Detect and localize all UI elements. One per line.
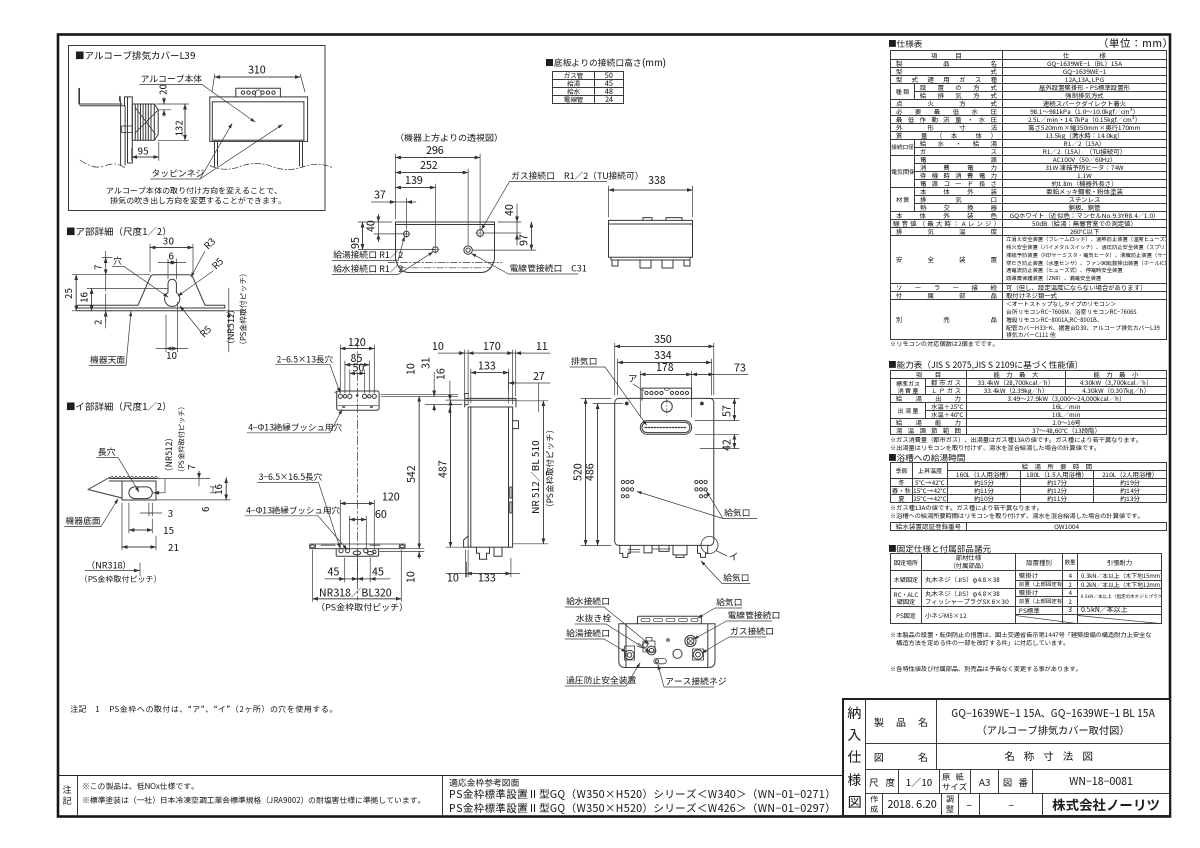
svg-text:97: 97 — [517, 234, 532, 246]
bottom view outline — [619, 624, 715, 668]
能力表 title — [888, 359, 1083, 371]
box border — [69, 46, 326, 211]
svg-text:73: 73 — [734, 361, 746, 376]
cold water hole — [433, 247, 439, 253]
bath table — [890, 462, 1167, 503]
svg-text:486: 486 — [583, 463, 598, 481]
bottom strip — [57, 775, 842, 817]
svg-text:給気口: 給気口 — [724, 506, 750, 519]
dim 10 bottom (bracket) — [380, 551, 424, 558]
svg-text:37: 37 — [374, 188, 386, 203]
side view: plate clip block — [122, 126, 133, 133]
svg-text:7: 7 — [91, 264, 105, 270]
svg-text:（NR512）: （NR512） — [163, 433, 175, 476]
side body — [609, 220, 693, 257]
svg-text:133: 133 — [478, 359, 496, 374]
dim 73 — [692, 373, 748, 375]
dim 97 right — [473, 222, 537, 250]
svg-text:16: 16 — [434, 368, 449, 380]
svg-text:133: 133 — [478, 571, 496, 586]
dim 21 — [122, 503, 156, 550]
top view dashdot lines — [388, 261, 502, 263]
center section holes — [339, 549, 343, 553]
svg-text:120: 120 — [382, 490, 400, 505]
dim 95 — [132, 142, 159, 161]
front top center knockout — [661, 401, 672, 412]
svg-text:25: 25 — [61, 288, 75, 299]
dim 139 — [396, 184, 436, 245]
svg-text:水抜き栓: 水抜き栓 — [575, 612, 612, 625]
svg-text:NR 512／BL 510: NR 512／BL 510 — [527, 440, 542, 514]
dim 120 bottom — [340, 500, 374, 549]
bottom bracket center section — [336, 549, 378, 557]
svg-text:穴: 穴 — [113, 254, 122, 267]
NR318 pitch dim — [85, 563, 140, 576]
product name row — [866, 700, 1169, 743]
dim 520 — [581, 398, 611, 545]
height table — [552, 71, 624, 104]
dim 3 — [140, 503, 162, 516]
water inlet + drain — [643, 638, 655, 653]
dim 16 — [87, 288, 168, 310]
dim 2 — [102, 294, 112, 328]
dim 133 top — [471, 369, 509, 403]
dim 60 bottom — [349, 516, 366, 549]
svg-text:4−Φ13絶縁ブッシュ用穴: 4−Φ13絶縁ブッシュ用穴 — [246, 505, 340, 517]
svg-text:310: 310 — [248, 63, 266, 78]
dim 16 — [156, 478, 230, 500]
side view: wall break line — [80, 160, 125, 168]
detail I slot — [129, 487, 152, 499]
scale row — [866, 769, 1169, 793]
svg-text:アルコーブ本体: アルコーブ本体 — [141, 72, 203, 85]
svg-text:（PS金枠取付ピッチ）: （PS金枠取付ピッチ） — [316, 601, 408, 614]
dim 120 top — [340, 345, 374, 393]
svg-text:給水接続口 R1／2: 給水接続口 R1／2 — [333, 262, 403, 275]
svg-text:15: 15 — [163, 523, 174, 537]
svg-text:7: 7 — [184, 464, 198, 470]
svg-text:（機器上方よりの透視図）: （機器上方よりの透視図） — [395, 131, 503, 144]
dim 486 — [593, 404, 623, 546]
svg-text:給湯接続口 R1／2: 給湯接続口 R1／2 — [333, 248, 403, 261]
dim 6 — [210, 487, 216, 493]
svg-text:338: 338 — [648, 173, 666, 188]
front view: bottom break line — [210, 164, 332, 170]
svg-text:長穴: 長穴 — [98, 445, 116, 458]
svg-text:R3: R3 — [200, 234, 218, 252]
dim 85 top — [345, 361, 369, 393]
svg-text:R5: R5 — [196, 322, 214, 340]
bath notes — [890, 504, 1144, 520]
dim 10 — [156, 302, 188, 352]
front view: cover face — [212, 102, 304, 140]
bottom tabs — [612, 260, 690, 268]
svg-text:機器底面: 機器底面 — [65, 514, 100, 527]
dim 6 — [158, 259, 186, 279]
dim row top: 10 170 11 — [438, 350, 550, 404]
conduit port — [685, 635, 696, 646]
dim 7 — [102, 251, 150, 291]
side view: cover nose bevel — [154, 104, 158, 140]
dim 30 — [150, 244, 193, 272]
earth tab — [654, 659, 667, 664]
svg-text:95: 95 — [138, 143, 149, 158]
浴槽への給湯時間 title — [888, 452, 965, 464]
svg-text:3−6.5×16.5長穴: 3−6.5×16.5長穴 — [259, 471, 323, 483]
dim 40 left — [374, 214, 406, 242]
top bracket plate — [337, 391, 379, 410]
svg-text:（PS金枠取付ピッチ）: （PS金枠取付ピッチ） — [80, 574, 162, 585]
hot water hole — [404, 231, 410, 237]
drawing name row — [866, 743, 1169, 769]
Noritz logo text — [1043, 794, 1169, 816]
svg-text:給湯接続口: 給湯接続口 — [566, 627, 610, 640]
small screw — [667, 639, 670, 642]
dim 310 — [212, 74, 305, 92]
svg-text:42: 42 — [720, 439, 735, 451]
dim 178 — [640, 371, 691, 417]
unit note — [1098, 36, 1174, 51]
svg-text:（NR512）: （NR512） — [224, 305, 237, 349]
svg-text:16: 16 — [76, 292, 90, 303]
svg-text:給気口: 給気口 — [716, 596, 742, 609]
side view: wall top edge — [80, 104, 125, 106]
svg-text:20: 20 — [156, 84, 170, 95]
dim 25 — [72, 275, 102, 311]
top plate slots — [641, 618, 650, 621]
front view: legs — [215, 141, 303, 167]
front view: top tab with holes — [236, 88, 281, 97]
dim 20 — [156, 104, 171, 110]
side view: wall corner ticks — [79, 89, 120, 105]
conduit hole — [464, 246, 472, 254]
exhaust slot — [640, 421, 691, 435]
center circle — [673, 649, 682, 658]
svg-text:給水接続口: 給水接続口 — [566, 595, 610, 608]
svg-text:■イ部詳細（尺度1／2）: ■イ部詳細（尺度1／2） — [66, 399, 172, 413]
svg-text:10: 10 — [404, 363, 419, 375]
svg-text:■アルコーブ排気カバーL39: ■アルコーブ排気カバーL39 — [75, 48, 195, 62]
remocon note — [890, 340, 999, 348]
front tab notch — [664, 388, 669, 391]
capacity notes — [890, 436, 1142, 452]
dim 57 — [695, 398, 739, 420]
side bottom pipes — [477, 547, 503, 559]
svg-text:10: 10 — [447, 571, 459, 586]
dim 338 — [609, 186, 693, 217]
front screws — [625, 402, 628, 405]
left vent cluster — [621, 480, 624, 483]
svg-text:2: 2 — [91, 319, 105, 325]
bottom bracket strip — [310, 544, 405, 549]
front top tab — [642, 388, 692, 400]
svg-text:50: 50 — [353, 360, 365, 375]
svg-text:（PS金枠取付ピッチ）: （PS金枠取付ピッチ） — [238, 269, 249, 349]
svg-text:排気口: 排気口 — [571, 355, 597, 368]
gas hole — [477, 230, 484, 237]
svg-text:機器天面: 機器天面 — [90, 353, 125, 366]
right vent cluster — [695, 480, 698, 483]
strip end holes — [310, 545, 314, 548]
gas port — [693, 649, 704, 660]
fixing notes — [890, 631, 1151, 647]
detail A bracket profile — [77, 275, 224, 311]
side bottom left bracket — [464, 536, 469, 547]
date row — [866, 793, 1169, 815]
svg-text:ア: ア — [628, 371, 638, 385]
svg-text:170: 170 — [483, 339, 501, 354]
svg-text:139: 139 — [405, 173, 423, 188]
detail I wedge — [88, 478, 122, 499]
side view: mount plate — [125, 97, 133, 163]
svg-text:NR318／BL320: NR318／BL320 — [319, 585, 392, 600]
svg-text:40: 40 — [502, 204, 517, 216]
svg-text:45: 45 — [328, 565, 340, 580]
svg-text:350: 350 — [654, 332, 672, 347]
note 1 — [70, 704, 338, 715]
svg-text:10: 10 — [404, 571, 419, 583]
dim 37 — [371, 198, 416, 229]
top bumps — [643, 218, 682, 221]
svg-text:252: 252 — [420, 158, 438, 173]
center axis dash-dot — [357, 340, 359, 600]
top view body — [396, 222, 495, 273]
detail I serrated edge — [110, 476, 158, 479]
svg-text:3: 3 — [168, 506, 173, 520]
svg-text:11: 11 — [536, 339, 548, 354]
svg-text:45: 45 — [372, 565, 384, 580]
svg-text:542: 542 — [404, 465, 419, 483]
svg-text:30: 30 — [163, 234, 174, 248]
detail A keyhole slot — [165, 279, 180, 306]
side view: cover hood ribs — [132, 104, 154, 140]
side body — [468, 407, 512, 547]
svg-text:4−Φ13絶縁ブッシュ用穴: 4−Φ13絶縁ブッシュ用穴 — [248, 422, 342, 434]
svg-text:57: 57 — [720, 405, 735, 417]
dim 252 — [396, 169, 469, 245]
spec table title — [888, 38, 922, 50]
svg-text:R5: R5 — [208, 254, 226, 272]
top bracket center mark — [356, 395, 359, 398]
svg-text:2−6.5×13長穴: 2−6.5×13長穴 — [277, 354, 334, 366]
fixing table crossed-out cells — [1016, 616, 1161, 624]
dim 42 — [695, 434, 739, 448]
svg-text:（PS金枠取付ピッチ）: （PS金枠取付ピッチ） — [544, 425, 556, 512]
dim 334 — [618, 359, 712, 395]
hot water port — [625, 646, 635, 660]
svg-text:6: 6 — [198, 506, 212, 512]
circle detail イ — [701, 537, 718, 554]
svg-text:ガス接続口: ガス接続口 — [730, 625, 774, 638]
fixing table — [890, 553, 1162, 624]
svg-text:（NR318）: （NR318） — [86, 559, 131, 572]
svg-text:■ア部詳細（尺度1／2）: ■ア部詳細（尺度1／2） — [66, 224, 172, 238]
svg-text:過圧防止安全装置: 過圧防止安全装置 — [566, 674, 637, 687]
svg-text:27: 27 — [533, 369, 545, 384]
dim NR318/BL320 — [313, 550, 402, 602]
side top tab — [465, 394, 516, 408]
top bracket lower marks — [343, 406, 373, 408]
drain valve stem — [637, 643, 643, 648]
bottom rail — [611, 257, 690, 260]
dim 296 — [396, 154, 481, 229]
bottom dims 10 133 — [446, 550, 520, 577]
dim 15 — [129, 503, 152, 533]
height table title — [545, 55, 666, 69]
svg-text:296: 296 — [426, 143, 444, 158]
side exhaust nub — [513, 421, 519, 429]
dim 45 45 — [325, 557, 390, 582]
dim 542 column — [381, 395, 458, 549]
svg-text:イ: イ — [729, 549, 739, 563]
front tab holes — [645, 391, 648, 394]
vertical label 納入仕様図 — [844, 700, 866, 815]
side view: wall band — [121, 101, 126, 166]
svg-text:電線管接続口: 電線管接続口 — [728, 609, 781, 622]
dim 7 — [156, 471, 210, 486]
svg-text:排気の吹き出し方向を変更することができます。: 排気の吹き出し方向を変更することができます。 — [110, 196, 286, 207]
dim NR512/BL510 right — [513, 401, 548, 544]
svg-text:487: 487 — [436, 460, 451, 478]
svg-text:21: 21 — [168, 540, 179, 554]
dim 50 top — [350, 370, 365, 393]
side view: cover cross brace — [135, 108, 158, 135]
svg-text:10: 10 — [166, 348, 177, 362]
svg-text:31: 31 — [419, 357, 434, 369]
side body face line — [471, 407, 509, 547]
svg-text:60: 60 — [375, 507, 387, 522]
spec table 仕様表 — [890, 50, 1167, 340]
side vents — [510, 487, 512, 513]
dim 95 left — [358, 222, 435, 250]
top bracket holes — [338, 394, 342, 398]
svg-text:アース接続ネジ: アース接続ネジ — [665, 675, 727, 688]
svg-text:178: 178 — [656, 360, 674, 375]
svg-text:タッピンネジ: タッピンネジ — [152, 167, 205, 180]
dim 31 — [433, 372, 435, 411]
dim 27 — [509, 373, 551, 412]
dim 132 — [158, 104, 189, 140]
front bottom fittings — [620, 545, 708, 557]
capacity table 能力表 — [890, 370, 1167, 435]
front body — [615, 398, 714, 545]
固定仕様 title — [888, 543, 991, 555]
dim 487 — [446, 400, 465, 547]
registration number bar — [890, 522, 1167, 531]
svg-text:6: 6 — [169, 249, 175, 263]
NR512 pitch note (detail A) — [225, 288, 243, 352]
svg-text:ガス接続口 R1／2（TU接続可）: ガス接続口 R1／2（TU接続可） — [511, 169, 644, 182]
svg-text:給気口: 給気口 — [723, 571, 749, 584]
svg-text:40: 40 — [364, 220, 379, 232]
svg-text:10: 10 — [432, 339, 444, 354]
detail I bracket — [110, 479, 157, 501]
svg-text:132: 132 — [172, 120, 186, 137]
svg-text:120: 120 — [348, 335, 366, 350]
bottom view top plate — [638, 616, 702, 624]
svg-text:電線管接続口 C31: 電線管接続口 C31 — [510, 262, 587, 275]
dim 40 right — [484, 204, 521, 245]
front view: outer body — [210, 97, 308, 141]
dim 350 — [615, 343, 714, 395]
